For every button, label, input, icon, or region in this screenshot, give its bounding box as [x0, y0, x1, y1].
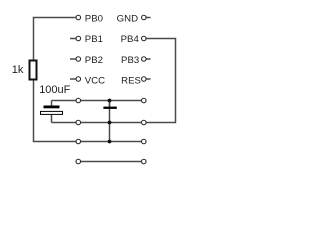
- svg-text:GND: GND: [117, 14, 138, 25]
- svg-text:PB3: PB3: [121, 55, 139, 66]
- svg-text:100uF: 100uF: [39, 84, 70, 96]
- svg-text:RES: RES: [121, 76, 141, 87]
- svg-text:PB1: PB1: [85, 34, 103, 45]
- svg-text:PB4: PB4: [121, 34, 140, 45]
- svg-text:1k: 1k: [12, 64, 24, 76]
- svg-text:PB0: PB0: [85, 14, 103, 25]
- svg-text:PB2: PB2: [85, 55, 103, 66]
- svg-text:VCC: VCC: [85, 76, 105, 87]
